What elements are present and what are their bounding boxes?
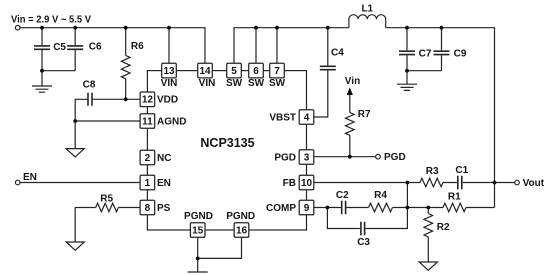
svg-text:7: 7 <box>274 66 280 77</box>
svg-text:EN: EN <box>157 178 171 189</box>
svg-text:Vout: Vout <box>523 178 545 189</box>
svg-text:R7: R7 <box>358 109 371 120</box>
svg-text:PGD: PGD <box>274 152 296 163</box>
svg-text:5: 5 <box>231 66 237 77</box>
svg-text:13: 13 <box>163 66 175 77</box>
svg-text:PGND: PGND <box>226 211 255 222</box>
svg-text:VIN: VIN <box>161 78 178 89</box>
svg-text:10: 10 <box>301 178 313 189</box>
svg-text:Vin: Vin <box>345 76 360 87</box>
svg-text:4: 4 <box>304 112 310 123</box>
svg-text:C1: C1 <box>455 165 468 176</box>
svg-text:R2: R2 <box>437 222 450 233</box>
svg-text:EN: EN <box>23 172 37 183</box>
svg-text:R4: R4 <box>374 190 387 201</box>
svg-text:VBST: VBST <box>269 112 296 123</box>
svg-text:COMP: COMP <box>266 203 296 214</box>
svg-text:C4: C4 <box>331 48 344 59</box>
svg-text:R1: R1 <box>448 192 461 203</box>
svg-text:VDD: VDD <box>157 95 178 106</box>
svg-text:3: 3 <box>304 152 310 163</box>
svg-text:11: 11 <box>142 116 153 127</box>
svg-text:SW: SW <box>248 78 265 89</box>
svg-text:2: 2 <box>145 153 151 164</box>
svg-text:R6: R6 <box>131 41 144 52</box>
svg-text:NCP3135: NCP3135 <box>200 136 254 150</box>
svg-text:R5: R5 <box>100 194 113 205</box>
svg-text:C6: C6 <box>89 42 102 53</box>
svg-text:C5: C5 <box>53 42 66 53</box>
svg-text:L1: L1 <box>361 4 373 15</box>
svg-text:PGD: PGD <box>384 152 406 163</box>
svg-text:C2: C2 <box>336 190 349 201</box>
svg-text:C8: C8 <box>83 80 96 91</box>
svg-text:1: 1 <box>145 178 151 189</box>
svg-text:C7: C7 <box>419 48 432 59</box>
svg-text:C3: C3 <box>357 237 370 248</box>
svg-text:14: 14 <box>199 66 211 77</box>
svg-text:AGND: AGND <box>157 116 186 127</box>
svg-text:SW: SW <box>269 78 286 89</box>
svg-text:8: 8 <box>145 203 151 214</box>
svg-text:FB: FB <box>283 178 296 189</box>
svg-text:NC: NC <box>157 153 171 164</box>
svg-text:15: 15 <box>192 225 204 236</box>
svg-text:12: 12 <box>142 95 154 106</box>
svg-text:C9: C9 <box>454 48 467 59</box>
svg-text:VIN: VIN <box>199 78 216 89</box>
svg-text:6: 6 <box>253 66 259 77</box>
svg-text:Vin = 2.9 V ~ 5.5 V: Vin = 2.9 V ~ 5.5 V <box>11 14 91 25</box>
svg-text:16: 16 <box>236 225 248 236</box>
svg-text:PGND: PGND <box>184 211 213 222</box>
svg-text:SW: SW <box>226 78 243 89</box>
svg-text:PS: PS <box>157 203 171 214</box>
svg-text:R3: R3 <box>426 166 439 177</box>
svg-text:9: 9 <box>304 203 310 214</box>
